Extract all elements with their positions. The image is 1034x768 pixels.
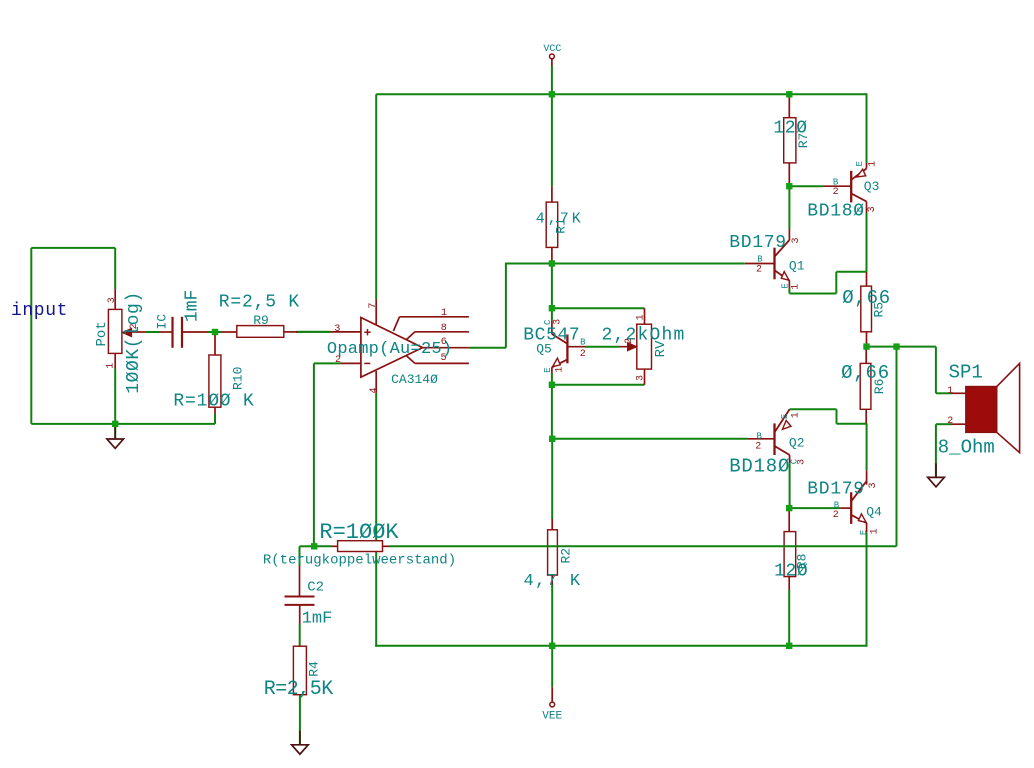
svg-text:R8: R8 [794,554,809,570]
svg-text:1: 1 [947,386,953,397]
svg-text:R=1ØØK: R=1ØØK [319,520,399,545]
svg-text:Q5: Q5 [536,341,552,356]
svg-text:2,2kOhm: 2,2kOhm [601,326,685,346]
svg-text:1: 1 [869,528,880,534]
svg-text:VEE: VEE [542,710,562,722]
svg-text:B: B [756,432,762,442]
svg-text:3: 3 [791,237,802,243]
svg-text:VCC: VCC [543,44,561,55]
svg-text:Q2: Q2 [789,435,805,450]
svg-text:2: 2 [833,510,839,521]
svg-text:3: 3 [636,375,647,381]
svg-text:Pot: Pot [94,321,110,346]
svg-text:R10: R10 [231,367,246,390]
svg-text:E: E [859,530,869,535]
svg-text:E: E [855,161,865,166]
svg-text:IC: IC [155,314,170,330]
svg-text:Q1: Q1 [789,258,805,273]
svg-text:2: 2 [335,355,341,366]
svg-text:Opamp(Au=25): Opamp(Au=25) [327,340,452,359]
svg-text:BD18Ø: BD18Ø [729,456,790,478]
svg-text:4: 4 [369,387,380,393]
svg-text:E: E [781,283,791,288]
svg-text:1: 1 [791,284,802,290]
svg-text:R5: R5 [872,302,887,318]
svg-text:RV: RV [653,340,669,357]
svg-text:1: 1 [636,314,647,320]
svg-text:R7: R7 [796,133,811,149]
svg-text:R(terugkoppelweerstand): R(terugkoppelweerstand) [263,552,456,568]
svg-text:1mF: 1mF [183,290,203,322]
svg-text:4,7 K: 4,7 K [523,572,581,591]
svg-text:1: 1 [441,308,447,319]
svg-text:R2: R2 [559,548,574,564]
svg-text:2: 2 [129,323,140,329]
svg-text:3: 3 [107,297,118,303]
svg-text:5: 5 [440,353,446,364]
svg-text:1mF: 1mF [302,610,333,629]
svg-text:R4: R4 [306,661,321,677]
svg-text:3: 3 [334,324,340,335]
svg-text:1ØØK(log): 1ØØK(log) [124,291,144,394]
svg-text:6: 6 [441,337,447,348]
svg-text:R=2,5 K: R=2,5 K [219,292,300,312]
svg-text:8_Ohm: 8_Ohm [938,437,995,459]
svg-text:7: 7 [368,303,379,309]
svg-text:C: C [856,206,866,212]
svg-text:SP1: SP1 [949,361,983,383]
svg-text:R1: R1 [554,218,569,234]
svg-text:BD179: BD179 [807,480,865,500]
svg-text:1: 1 [105,363,116,369]
svg-text:B: B [757,255,763,265]
svg-text:8: 8 [441,323,447,334]
svg-text:3: 3 [867,206,878,212]
svg-text:input: input [11,301,68,321]
svg-text:2: 2 [756,265,762,276]
svg-text:Q3: Q3 [864,179,880,194]
svg-text:BD179: BD179 [729,233,787,253]
svg-text:B: B [580,338,586,348]
svg-text:C: C [543,319,553,325]
svg-text:Q4: Q4 [866,505,882,520]
svg-text:R9: R9 [253,313,269,328]
svg-text:R=2,5K: R=2,5K [264,678,334,701]
svg-text:1: 1 [554,367,565,373]
svg-text:R=1ØØ K: R=1ØØ K [173,391,254,411]
svg-text:3: 3 [553,319,564,325]
svg-text:2: 2 [624,338,635,344]
svg-text:3: 3 [868,482,879,488]
svg-text:E: E [780,414,790,419]
svg-text:2: 2 [947,416,953,427]
svg-text:1: 1 [791,412,802,418]
svg-text:C2: C2 [307,579,324,595]
svg-text:2: 2 [755,441,761,452]
svg-text:CA314Ø: CA314Ø [391,372,438,387]
svg-text:R6: R6 [872,379,887,395]
svg-text:2: 2 [580,349,586,360]
svg-text:1: 1 [868,161,879,167]
svg-text:3: 3 [797,459,808,465]
svg-text:E: E [543,367,553,372]
svg-text:2: 2 [833,187,839,198]
